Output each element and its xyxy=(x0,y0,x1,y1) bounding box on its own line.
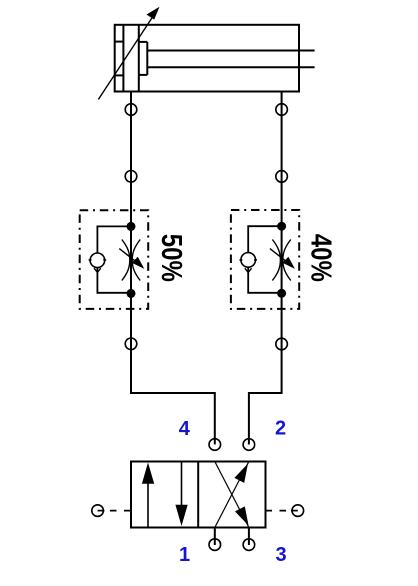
V1 junction top xyxy=(127,222,136,231)
wire right cylinder port to valve port 2 xyxy=(249,92,282,445)
right cushion xyxy=(139,42,148,75)
svg-text:3: 3 xyxy=(275,544,286,566)
port 3 stub xyxy=(248,528,250,546)
flow control valve V2 enclosure xyxy=(231,210,299,309)
directional valve body xyxy=(131,462,266,528)
piston rod xyxy=(147,51,314,68)
V2 check valve xyxy=(239,253,257,273)
connection circle left C xyxy=(125,338,137,350)
left position down arrow xyxy=(175,462,187,527)
V2 bypass branch xyxy=(248,226,281,293)
port 4 circle xyxy=(209,439,221,451)
left pilot port xyxy=(92,505,131,517)
right pilot port xyxy=(266,505,304,517)
port 1 stub xyxy=(214,528,216,546)
connection circle left B xyxy=(125,171,137,183)
connection circle right B xyxy=(276,171,288,183)
left position up arrow xyxy=(142,463,154,528)
flow control valve V1 enclosure xyxy=(80,210,149,309)
svg-text:4: 4 xyxy=(179,418,191,440)
V2 junction top xyxy=(277,222,286,231)
arrowhead to port 3 xyxy=(235,506,249,525)
svg-text:2: 2 xyxy=(275,418,286,440)
connection circle left A xyxy=(125,104,137,116)
svg-text:40%: 40% xyxy=(304,234,336,282)
wire left cylinder port to valve port 4 xyxy=(131,92,215,445)
V1 throttle arrow xyxy=(119,249,144,269)
connection circle right C xyxy=(276,338,288,350)
svg-text:50%: 50% xyxy=(155,234,187,282)
right position cross line 1-2 xyxy=(215,462,249,528)
right position cross line 4-3 xyxy=(215,462,249,528)
V1 junction bottom xyxy=(127,289,136,298)
cylinder body xyxy=(115,25,299,92)
valve position divider xyxy=(197,462,199,528)
svg-text:1: 1 xyxy=(179,544,190,566)
V1 bypass branch xyxy=(97,226,131,292)
arrowhead to port 2 xyxy=(234,464,248,483)
port 1 circle xyxy=(209,539,221,551)
port 2 circle xyxy=(243,439,255,451)
left cushion xyxy=(115,42,124,76)
V2 throttle xyxy=(272,240,290,281)
V2 throttle arrow xyxy=(270,249,295,269)
V1 throttle xyxy=(122,240,140,281)
adjustability arrow xyxy=(98,7,159,100)
connection circle right A xyxy=(276,104,288,116)
V2 junction bottom xyxy=(277,289,286,298)
V1 check valve xyxy=(89,253,107,272)
port 3 circle xyxy=(243,539,255,551)
piston xyxy=(123,25,138,92)
